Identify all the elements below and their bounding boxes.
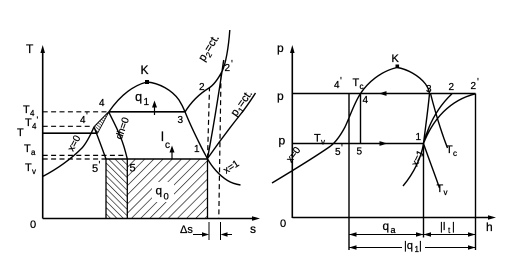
h axis — [292, 217, 492, 219]
subcooling line 4 to 4' lower sliver edge — [98, 112, 109, 133]
dome left side 4 to K — [109, 82, 147, 112]
svg-text:s: s — [250, 222, 256, 236]
svg-text:c: c — [453, 149, 457, 158]
dome right side K-3 and x=1 down through 1 — [397, 68, 430, 187]
Tc isotherm superheated branch — [431, 94, 448, 149]
svg-text:1: 1 — [416, 132, 422, 143]
svg-text:T: T — [437, 183, 444, 195]
svg-text:T: T — [25, 162, 32, 174]
svg-text:h: h — [486, 220, 493, 234]
Tv isotherm superheated branch — [424, 144, 440, 189]
svg-text:l: l — [161, 129, 164, 144]
hatched area q0 (refrigeration effect) — [127, 159, 207, 219]
svg-text:': ' — [231, 59, 233, 70]
solid evaporation line 5'-5-1 — [106, 158, 208, 160]
svg-text:q: q — [156, 184, 163, 198]
svg-text:p: p — [277, 41, 284, 55]
T axis — [42, 49, 44, 219]
dashed witness below 2' — [219, 75, 221, 218]
svg-text:T: T — [24, 143, 31, 155]
compression curve 1-2' — [424, 94, 476, 144]
svg-text:0: 0 — [164, 192, 169, 203]
qa dimension row — [349, 234, 424, 236]
svg-text:|q: |q — [404, 240, 413, 252]
right arrow on lower line (evaporation direction) — [380, 141, 388, 146]
svg-text:T: T — [17, 127, 24, 139]
p1=ct curve from 1 — [208, 93, 256, 159]
vertical below 1 — [207, 159, 209, 219]
white box behind q0 label — [152, 182, 174, 202]
vertical below 1 — [423, 144, 425, 238]
solid line T mean — [43, 132, 98, 134]
ticks below axis for ds — [208, 222, 210, 240]
dashed line Ta — [43, 154, 124, 156]
hatched area 5'-5 strip (throttling loss) — [106, 159, 127, 219]
dashed part of Tv line — [43, 158, 106, 160]
dome right side K to 3 to 1 and x=1 tail — [147, 82, 241, 185]
svg-text:p: p — [279, 134, 286, 148]
svg-text:5: 5 — [357, 147, 363, 158]
svg-text:1: 1 — [144, 97, 150, 108]
svg-text:': ' — [340, 76, 342, 87]
lt dimension row — [424, 234, 476, 236]
x=0 curve of dome — [272, 68, 397, 184]
svg-text:5: 5 — [130, 163, 136, 175]
throttling curve dh=0 from 4 to 5 — [109, 112, 128, 159]
svg-text:T: T — [314, 133, 321, 145]
label p1=ct rotated — [229, 88, 257, 120]
svg-text:a: a — [391, 225, 396, 235]
s axis — [43, 218, 256, 220]
svg-text:2: 2 — [471, 81, 477, 92]
x=0 saturated liquid curve — [43, 112, 109, 177]
vertical below 5' — [105, 159, 107, 219]
svg-text:v: v — [444, 188, 448, 197]
svg-text:': ' — [37, 115, 39, 125]
svg-text:': ' — [86, 111, 88, 122]
condensation line 4-3 — [109, 111, 185, 113]
vertical below 5 — [126, 159, 128, 219]
svg-text:5: 5 — [92, 163, 98, 175]
svg-text:T: T — [25, 117, 32, 129]
svg-text:2: 2 — [449, 82, 455, 93]
svg-text:4: 4 — [99, 98, 105, 109]
svg-text:T: T — [23, 104, 30, 116]
svg-text:|: | — [452, 221, 455, 233]
point K marker right — [396, 65, 400, 69]
vertical throttle 4-5 — [360, 94, 362, 144]
dashed line T4' — [43, 125, 93, 127]
svg-text:': ' — [341, 143, 343, 154]
svg-text:3: 3 — [178, 115, 184, 126]
svg-text:0: 0 — [280, 218, 286, 230]
svg-text:p: p — [277, 89, 284, 103]
lc up arrow — [171, 151, 173, 159]
compression curve 1-2 — [424, 94, 453, 144]
svg-text:K: K — [392, 53, 400, 65]
dashed isentrope 1-2 — [208, 88, 210, 159]
dashed line T4 — [43, 111, 108, 113]
svg-text:|: | — [419, 240, 422, 252]
hatched sliver between 4 and 4' — [94, 112, 109, 133]
p axis — [291, 49, 293, 218]
svg-text:v: v — [32, 167, 36, 176]
svg-text:T: T — [353, 77, 360, 89]
throttling line 4' to 5' — [94, 127, 106, 159]
p2=ct curve through 3,2,2' — [185, 30, 230, 112]
svg-text:|l: |l — [440, 221, 445, 233]
svg-text:c: c — [165, 140, 170, 151]
svg-text:v: v — [321, 138, 325, 147]
svg-text:': ' — [99, 160, 101, 171]
upper isobar p line — [292, 93, 475, 95]
svg-text:2: 2 — [225, 63, 231, 74]
white box behind q1 label — [402, 238, 425, 250]
svg-text:Δs: Δs — [180, 224, 193, 236]
svg-text:T: T — [446, 144, 453, 156]
svg-text:K: K — [141, 63, 149, 77]
svg-text:a: a — [31, 148, 36, 157]
svg-text:1: 1 — [194, 144, 200, 155]
lower isobar p line — [292, 143, 423, 145]
solid real compression 1-2' — [208, 60, 224, 159]
vertical at 2' — [475, 94, 477, 251]
left arrow on upper line (condensation direction) — [379, 91, 387, 96]
svg-text:4: 4 — [363, 95, 369, 106]
svg-text:q: q — [135, 89, 142, 104]
vertical 4'-5' witness line — [348, 94, 350, 251]
point K marker — [145, 80, 149, 84]
svg-text:T: T — [26, 42, 34, 56]
svg-text:c: c — [360, 82, 364, 91]
svg-text:q: q — [383, 219, 390, 233]
svg-text:': ' — [477, 77, 479, 88]
svg-text:0: 0 — [30, 219, 36, 231]
ds dimension arrows — [193, 234, 206, 236]
q1 dimension row — [349, 247, 476, 249]
label p2=ct rotated — [196, 33, 223, 65]
svg-text:2: 2 — [199, 82, 205, 93]
q1 up arrow — [154, 105, 156, 115]
